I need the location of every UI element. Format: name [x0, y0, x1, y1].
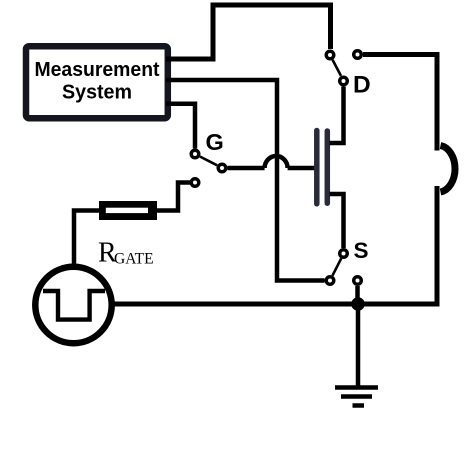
switch SW-G blade — [200, 157, 217, 166]
connector arc on right rail — [441, 146, 456, 193]
switch SW-G throw 1 contact — [191, 150, 199, 158]
resistor R_GATE body — [99, 201, 157, 220]
transistor Q1 channel bar — [325, 131, 331, 203]
ground symbol bar 1 — [335, 385, 378, 390]
svg-text:G: G — [206, 129, 224, 155]
switch SW-S throw to ground contact — [354, 277, 362, 285]
wire junction to ground — [356, 304, 361, 386]
svg-text:GATE: GATE — [114, 251, 154, 268]
wire hop to gate — [288, 166, 315, 171]
switch SW-D blade — [333, 60, 341, 76]
switch SW-D throw from top rail contact — [326, 51, 334, 59]
wire measurement box to source switch — [166, 80, 325, 281]
wire resistor to pulse source — [74, 211, 99, 265]
svg-text:System: System — [62, 81, 132, 104]
switch SW-S throw to measurement contact — [326, 277, 334, 285]
wire right rail lower segment — [113, 186, 437, 304]
junction node — [351, 297, 365, 311]
svg-text:D: D — [353, 71, 371, 98]
switch SW-D drain pole contact — [340, 77, 348, 85]
wire measurement box to gate switch — [166, 104, 195, 149]
switch SW-S blade — [333, 258, 342, 275]
wire drain switch to right rail — [363, 55, 437, 151]
measurement system box U1 — [26, 46, 168, 118]
wire source tap — [330, 194, 344, 248]
svg-text:S: S — [354, 238, 369, 263]
transistor Q1 gate bar — [314, 131, 320, 204]
svg-text:Measurement: Measurement — [35, 58, 160, 81]
wire hop over vertical wire — [265, 156, 288, 168]
switch SW-G throw 2 contact — [191, 179, 199, 187]
switch SW-S source pole contact — [340, 250, 348, 258]
pulse generator V1 circle — [35, 267, 111, 343]
wire drain tap — [330, 87, 344, 144]
wire top loop from measurement box to drain switch — [166, 5, 331, 59]
wire gate switch to MOSFET gate with hop — [228, 166, 265, 171]
wire ground switch contact to junction — [355, 286, 360, 304]
ground symbol bar 2 — [341, 394, 372, 399]
wire gate switch throw 2 to resistor — [157, 183, 190, 211]
ground symbol bar 3 — [353, 403, 365, 408]
pulse generator waveform — [43, 291, 105, 320]
switch SW-D throw to right rail contact — [354, 51, 362, 59]
switch SW-G pole contact — [218, 164, 226, 172]
